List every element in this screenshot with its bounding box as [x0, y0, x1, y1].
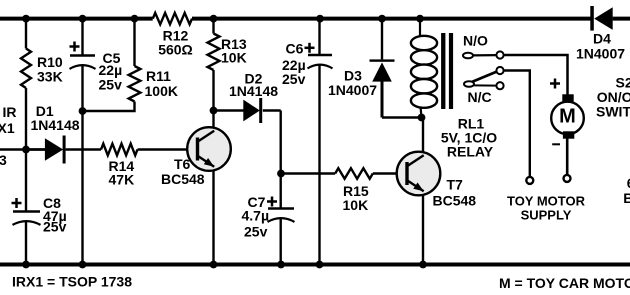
- capacitor C6: [282, 19, 333, 265]
- wire common contact to supply terminal: [504, 71, 530, 177]
- node D3 top rail: [378, 15, 386, 23]
- node C6 top rail: [316, 15, 324, 23]
- resistor R15: [281, 168, 407, 213]
- node relay coil top rail: [416, 15, 424, 23]
- svg-text:RELAY: RELAY: [447, 144, 494, 160]
- svg-text:10K: 10K: [221, 50, 247, 66]
- relay contact N/O: [463, 32, 504, 58]
- svg-text:M: M: [559, 106, 576, 128]
- capacitor C8: [12, 150, 67, 265]
- svg-text:BC548: BC548: [433, 193, 477, 209]
- svg-text:SWITCH: SWITCH: [596, 103, 630, 119]
- svg-text:X1: X1: [0, 120, 15, 136]
- svg-text:TOY MOTOR: TOY MOTOR: [507, 194, 586, 209]
- node R10 top rail: [22, 15, 30, 23]
- node D3 coil T7 collector: [418, 114, 426, 122]
- svg-text:1N4007: 1N4007: [328, 82, 377, 98]
- svg-text:25v: 25v: [43, 219, 67, 235]
- relay contact N/C: [464, 81, 504, 105]
- node T6 emitter ground: [210, 261, 218, 269]
- wire IRX1 pin3 to D1 junction: [0, 148, 46, 150]
- svg-text:M = TOY CAR MOTOR: M = TOY CAR MOTOR: [499, 275, 630, 291]
- node C6 ground: [316, 261, 324, 269]
- annotation IRX1: [12, 274, 132, 290]
- svg-text:N/C: N/C: [468, 89, 492, 105]
- svg-text:1N4148: 1N4148: [31, 117, 80, 133]
- wire bottom ground rail: [0, 263, 630, 267]
- svg-text:D4: D4: [593, 31, 611, 47]
- svg-text:BATTERY: BATTERY: [623, 190, 630, 206]
- diode D3: [328, 19, 422, 118]
- node R11 top rail: [131, 15, 139, 23]
- svg-text:33K: 33K: [37, 69, 63, 85]
- svg-text:IRX1 = TSOP 1738: IRX1 = TSOP 1738: [12, 274, 132, 290]
- svg-text:25v: 25v: [282, 71, 306, 87]
- capacitor C7: [242, 111, 295, 265]
- diode D2: [214, 71, 281, 124]
- svg-text:560Ω: 560Ω: [158, 42, 193, 58]
- transistor T7: [397, 118, 477, 265]
- svg-text:4.7µ: 4.7µ: [242, 208, 270, 224]
- svg-text:3: 3: [0, 152, 7, 168]
- wire N/O contact to motor: [504, 55, 568, 95]
- svg-text:BC548: BC548: [161, 171, 205, 187]
- svg-text:N/O: N/O: [463, 32, 488, 48]
- svg-text:IR: IR: [3, 104, 17, 120]
- node T7 emitter ground: [419, 261, 427, 269]
- svg-text:C6: C6: [286, 41, 304, 57]
- resistor R14: [101, 144, 198, 188]
- resistor R11: [83, 19, 178, 111]
- node C7 R15 junction: [277, 170, 285, 178]
- wire top supply rail mid segment: [192, 17, 591, 21]
- battery label: [623, 175, 630, 206]
- node C8 ground: [22, 261, 30, 269]
- node C5 R11 junction: [79, 107, 87, 115]
- node C5 ground: [79, 261, 87, 269]
- node R13 top rail: [210, 15, 218, 23]
- toy motor supply terminals: [507, 175, 586, 223]
- motor M: [550, 79, 584, 175]
- relay armature common: [465, 67, 504, 85]
- node C5 top rail: [79, 15, 87, 23]
- relay RL1 coil: [411, 19, 497, 160]
- svg-text:47K: 47K: [109, 172, 135, 188]
- svg-text:SUPPLY: SUPPLY: [521, 208, 572, 223]
- svg-text:T7: T7: [447, 177, 464, 193]
- svg-text:10K: 10K: [343, 197, 369, 213]
- wire top supply rail right segment: [613, 17, 630, 21]
- resistor R12: [153, 13, 193, 58]
- wire top supply rail left segment: [0, 17, 153, 21]
- node R13 D2 T6 collector: [210, 107, 218, 115]
- svg-text:100K: 100K: [145, 83, 178, 99]
- resistor R10: [21, 19, 63, 150]
- svg-text:R11: R11: [146, 68, 171, 84]
- capacitor C5: [70, 19, 123, 265]
- switch S2 label: [596, 75, 630, 120]
- resistor R13: [208, 19, 247, 111]
- svg-text:T6: T6: [174, 156, 191, 172]
- svg-text:1N4007: 1N4007: [576, 46, 625, 62]
- node C7 ground: [277, 261, 285, 269]
- node D1 anode junction: [22, 146, 30, 154]
- diode D1: [26, 103, 101, 164]
- svg-text:25v: 25v: [244, 224, 268, 240]
- transistor T6: [161, 111, 231, 265]
- annotation motor: [499, 275, 630, 291]
- IR receiver IRX1 labels: [0, 104, 17, 168]
- svg-text:25v: 25v: [99, 77, 123, 93]
- svg-text:1N4148: 1N4148: [229, 83, 278, 99]
- diode D4: [576, 6, 625, 62]
